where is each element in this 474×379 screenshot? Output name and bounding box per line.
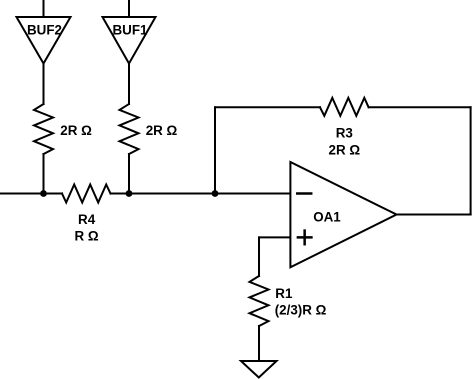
svg-text:R4: R4 (78, 212, 96, 227)
wire plus input vertical (258, 237, 260, 276)
wire feedback top left (215, 106, 320, 108)
wire BUF2 input (43, 0, 45, 17)
buffer BUF1 (103, 17, 156, 64)
node junction feedback tap (212, 190, 219, 197)
svg-text:BUF1: BUF1 (113, 22, 149, 37)
node junction BUF2/bus (40, 190, 47, 197)
node junction BUF1/bus (126, 190, 133, 197)
wire BUF1 resistor to bus (128, 154, 130, 194)
wire BUF2 resistor to bus (43, 154, 45, 194)
svg-text:OA1: OA1 (313, 210, 341, 225)
wire BUF1 output to resistor (128, 64, 130, 105)
wire BUF1 input (128, 0, 130, 17)
buffer BUF2 (17, 17, 71, 64)
wire bus left segment (0, 193, 62, 195)
wire bus right segment to op-amp (111, 193, 290, 195)
svg-text:2R Ω: 2R Ω (146, 123, 178, 138)
svg-text:2R Ω: 2R Ω (60, 123, 92, 138)
resistor R4 (62, 185, 111, 244)
wire R1 to ground (258, 326, 260, 361)
svg-text:R Ω: R Ω (75, 229, 99, 244)
wire feedback top right (369, 106, 471, 108)
resistor 2R (BUF1 branch) (120, 104, 178, 154)
resistor R3 (320, 98, 369, 158)
svg-text:BUF2: BUF2 (27, 22, 62, 37)
resistor R1 (250, 276, 327, 326)
ground (241, 361, 277, 378)
wire op-amp output (397, 214, 471, 216)
wire plus input horizontal (259, 236, 289, 238)
svg-text:2R Ω: 2R Ω (329, 142, 361, 157)
wire feedback vertical up (214, 107, 216, 193)
op-amp OA1 (290, 162, 396, 267)
svg-text:(2/3)R Ω: (2/3)R Ω (275, 303, 327, 318)
wire BUF2 output to resistor (43, 64, 45, 105)
resistor 2R (BUF2 branch) (34, 104, 92, 154)
svg-text:R1: R1 (275, 286, 293, 301)
wire feedback right vertical down (470, 107, 472, 214)
svg-text:R3: R3 (336, 126, 353, 141)
